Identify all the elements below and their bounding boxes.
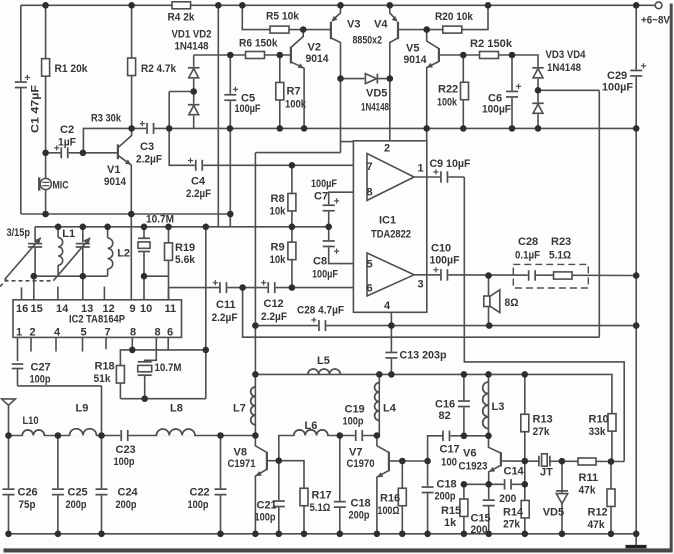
svg-text:5.6k: 5.6k: [175, 254, 196, 266]
svg-text:9: 9: [130, 303, 136, 315]
svg-text:R13: R13: [533, 413, 553, 425]
svg-text:100: 100: [441, 456, 457, 468]
svg-text:200p: 200p: [435, 490, 456, 502]
svg-text:100µF: 100µF: [312, 268, 338, 280]
svg-text:R18: R18: [95, 360, 115, 372]
svg-text:C4: C4: [191, 175, 206, 187]
svg-text:10.7M: 10.7M: [146, 213, 174, 225]
svg-text:C1923: C1923: [459, 460, 488, 472]
svg-text:100k: 100k: [285, 98, 307, 110]
svg-text:R2 4.7k: R2 4.7k: [141, 63, 177, 75]
svg-text:C28: C28: [518, 236, 538, 248]
svg-text:C1970: C1970: [347, 458, 375, 470]
svg-text:10.7M: 10.7M: [155, 362, 182, 374]
svg-text:V8: V8: [234, 446, 247, 458]
svg-text:R16: R16: [380, 492, 400, 504]
svg-text:L5: L5: [317, 355, 330, 367]
svg-text:C3: C3: [140, 141, 154, 153]
svg-text:1N4148: 1N4148: [175, 40, 209, 52]
svg-text:R12: R12: [588, 506, 608, 518]
svg-text:C11: C11: [216, 299, 236, 311]
svg-text:C9 10µF: C9 10µF: [430, 158, 471, 170]
svg-text:75p: 75p: [19, 499, 36, 511]
svg-text:3: 3: [418, 279, 424, 291]
svg-text:R17: R17: [312, 489, 332, 501]
svg-text:100µF: 100µF: [311, 178, 337, 190]
svg-text:14: 14: [56, 303, 69, 315]
svg-text:5.1Ω: 5.1Ω: [549, 249, 571, 261]
svg-text:11: 11: [165, 303, 177, 315]
svg-text:1N4148: 1N4148: [361, 101, 389, 113]
svg-text:C1 47µF: C1 47µF: [30, 85, 42, 133]
svg-text:1µF: 1µF: [58, 136, 76, 148]
svg-text:1k: 1k: [444, 517, 457, 529]
svg-text:L8: L8: [170, 402, 183, 414]
svg-text:100k: 100k: [437, 96, 458, 108]
svg-text:V5: V5: [406, 42, 419, 54]
svg-text:100p: 100p: [188, 499, 209, 511]
svg-text:12: 12: [103, 303, 115, 315]
svg-text:15: 15: [31, 303, 43, 315]
svg-text:100p: 100p: [114, 456, 135, 468]
svg-text:200p: 200p: [349, 509, 370, 521]
svg-text:7: 7: [367, 161, 373, 173]
svg-text:8850x2: 8850x2: [353, 34, 383, 46]
svg-text:R23: R23: [551, 236, 571, 248]
svg-text:C25: C25: [68, 486, 88, 498]
svg-text:8: 8: [155, 326, 161, 338]
svg-text:V4: V4: [374, 18, 388, 30]
svg-text:L6: L6: [305, 420, 318, 432]
svg-text:9014: 9014: [104, 176, 127, 188]
svg-text:C7: C7: [314, 190, 328, 202]
svg-text:L9: L9: [76, 402, 89, 414]
svg-text:V3: V3: [347, 18, 360, 30]
svg-text:5: 5: [81, 326, 87, 338]
svg-text:5.1Ω: 5.1Ω: [310, 502, 331, 514]
svg-text:MIC: MIC: [53, 179, 69, 191]
svg-text:L10: L10: [23, 415, 39, 427]
svg-text:R15: R15: [441, 505, 461, 517]
svg-text:200p: 200p: [66, 499, 87, 511]
svg-text:6: 6: [167, 326, 173, 338]
svg-text:V6: V6: [463, 448, 476, 460]
svg-text:200: 200: [471, 524, 488, 536]
svg-text:R4 2k: R4 2k: [168, 11, 196, 23]
svg-text:47k: 47k: [579, 484, 597, 496]
svg-text:R7: R7: [287, 85, 301, 97]
svg-text:R10: R10: [589, 413, 609, 425]
svg-text:C1971: C1971: [228, 458, 256, 470]
svg-text:100p: 100p: [343, 415, 364, 427]
svg-text:C28 4.7µF: C28 4.7µF: [297, 304, 344, 316]
svg-text:7: 7: [105, 326, 111, 338]
svg-text:V2: V2: [308, 41, 321, 53]
svg-text:C2: C2: [60, 124, 74, 136]
svg-text:100µF: 100µF: [482, 104, 511, 116]
svg-text:C17: C17: [440, 444, 460, 456]
svg-text:200p: 200p: [116, 499, 137, 511]
svg-text:10: 10: [140, 303, 152, 315]
svg-text:82: 82: [439, 410, 451, 422]
svg-text:2.2µF: 2.2µF: [136, 153, 162, 165]
svg-text:200: 200: [499, 493, 516, 505]
svg-text:L4: L4: [383, 402, 397, 414]
svg-text:JT: JT: [540, 466, 553, 478]
svg-text:C13 203p: C13 203p: [400, 349, 447, 361]
svg-text:2.2µF: 2.2µF: [212, 312, 238, 324]
svg-text:IC2 TA8164P: IC2 TA8164P: [69, 313, 125, 325]
svg-text:9014: 9014: [306, 53, 330, 65]
svg-text:100µF: 100µF: [602, 81, 633, 93]
svg-text:13: 13: [81, 303, 93, 315]
svg-text:47k: 47k: [588, 519, 606, 531]
svg-text:27k: 27k: [533, 426, 551, 438]
svg-text:6: 6: [367, 283, 373, 295]
svg-text:100Ω: 100Ω: [378, 505, 400, 517]
svg-text:100µF: 100µF: [235, 103, 261, 115]
svg-text:1: 1: [16, 326, 22, 338]
svg-text:2: 2: [384, 143, 390, 155]
svg-text:R8: R8: [271, 193, 285, 205]
svg-text:L2: L2: [117, 247, 130, 259]
svg-text:C15: C15: [471, 512, 491, 524]
svg-text:16: 16: [16, 303, 28, 315]
svg-text:V7: V7: [349, 446, 362, 458]
svg-text:C24: C24: [118, 486, 139, 498]
svg-text:4: 4: [384, 300, 391, 312]
svg-text:1N4148: 1N4148: [547, 62, 581, 74]
svg-text:8Ω: 8Ω: [505, 297, 519, 309]
svg-text:27k: 27k: [503, 519, 521, 531]
svg-text:C29: C29: [607, 70, 627, 82]
svg-text:C8: C8: [313, 255, 327, 267]
svg-text:VD5: VD5: [543, 507, 564, 519]
svg-text:10k: 10k: [270, 254, 287, 266]
svg-text:VD3 VD4: VD3 VD4: [546, 49, 587, 61]
svg-text:R19: R19: [175, 242, 195, 254]
svg-text:100p: 100p: [255, 511, 276, 523]
svg-text:R5 10k: R5 10k: [266, 10, 300, 22]
svg-text:10k: 10k: [270, 205, 287, 217]
svg-text:C18: C18: [437, 478, 457, 490]
svg-text:33k: 33k: [589, 426, 607, 438]
svg-text:2.2µF: 2.2µF: [261, 311, 287, 323]
svg-text:VD1 VD2: VD1 VD2: [172, 28, 212, 40]
svg-text:V1: V1: [107, 164, 120, 176]
svg-text:C19: C19: [345, 403, 365, 415]
svg-text:R20 10k: R20 10k: [435, 11, 474, 23]
svg-text:C16: C16: [435, 398, 455, 410]
svg-text:R3 30k: R3 30k: [91, 112, 122, 124]
svg-text:R9: R9: [271, 241, 285, 253]
svg-text:L1: L1: [62, 228, 75, 240]
svg-text:C27: C27: [31, 361, 51, 373]
svg-text:+6~8V: +6~8V: [641, 14, 671, 26]
svg-text:3/15p: 3/15p: [7, 227, 31, 239]
svg-text:2: 2: [30, 326, 36, 338]
svg-text:4: 4: [54, 326, 61, 338]
svg-text:9014: 9014: [404, 54, 428, 66]
svg-text:VD5: VD5: [366, 87, 387, 99]
svg-text:C18: C18: [351, 497, 371, 509]
svg-text:R22: R22: [438, 83, 458, 95]
svg-text:R14: R14: [503, 507, 524, 519]
svg-text:R6 150k: R6 150k: [239, 37, 278, 49]
svg-text:TDA2822: TDA2822: [371, 228, 411, 240]
svg-text:IC1: IC1: [379, 214, 396, 226]
svg-text:C23: C23: [116, 444, 136, 456]
svg-text:L3: L3: [492, 401, 505, 413]
svg-text:C12: C12: [264, 298, 284, 310]
svg-text:C22: C22: [190, 486, 210, 498]
svg-text:1: 1: [418, 163, 424, 175]
svg-text:0.1µF: 0.1µF: [515, 249, 540, 261]
svg-text:100µF: 100µF: [430, 254, 460, 266]
svg-text:R11: R11: [579, 472, 599, 484]
svg-text:8: 8: [367, 187, 373, 199]
svg-text:C10: C10: [431, 242, 451, 254]
svg-text:C21: C21: [257, 499, 277, 511]
svg-text:5: 5: [367, 259, 373, 271]
svg-text:2.2µF: 2.2µF: [186, 188, 211, 200]
svg-text:51k: 51k: [94, 373, 112, 385]
svg-text:R1 20k: R1 20k: [55, 63, 89, 75]
svg-text:R2 150k: R2 150k: [470, 38, 513, 50]
svg-text:100p: 100p: [30, 373, 51, 385]
svg-text:L7: L7: [233, 402, 246, 414]
svg-text:C14: C14: [504, 465, 525, 477]
svg-text:C26: C26: [18, 486, 38, 498]
svg-text:8: 8: [130, 326, 136, 338]
